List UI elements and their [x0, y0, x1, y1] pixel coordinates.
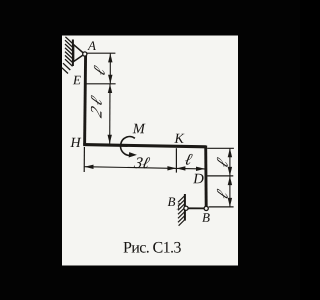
arrow right at K tick (3l dim): [167, 166, 176, 170]
arrow left at K tick (l dim): [176, 166, 185, 170]
dimension line l (corner-D): [229, 148, 231, 176]
arrow up at D tick: [228, 176, 232, 185]
label M: [133, 124, 146, 134]
tick below H for 3l dimension: [83, 147, 85, 172]
paper background: [62, 36, 238, 266]
arrow right at corner bar (l dim): [196, 167, 205, 171]
arrow down at D tick: [228, 167, 232, 176]
tick right at D level: [207, 175, 233, 177]
arrow up at corner tick (right l dim): [228, 148, 232, 157]
dimension line 3l (H-K): [85, 167, 177, 169]
dimension line l (A-E): [109, 53, 111, 83]
arrowhead of moment M: [129, 152, 137, 157]
label B: [202, 213, 210, 222]
arrowheads: [85, 53, 233, 207]
arrow up at E tick (2l dim): [108, 84, 112, 93]
dim label 3l (H-K): [134, 157, 151, 168]
label B1: [168, 198, 180, 210]
tick below K: [175, 148, 177, 172]
moment M arc: [121, 137, 135, 156]
label A: [87, 41, 96, 50]
dimension line l (K-corner): [176, 167, 205, 170]
label H: [70, 138, 81, 147]
caption: [124, 242, 181, 253]
dim label l (corner-D): [217, 157, 228, 167]
dim label l (A-E): [94, 65, 105, 75]
dim label l (K-corner): [185, 154, 193, 165]
arrow down at B tick: [228, 198, 232, 207]
horizontal bar H-K-corner: [83, 145, 206, 147]
link rod B1-B: [186, 207, 206, 209]
label K: [174, 134, 184, 143]
pin circle at A: [83, 52, 87, 56]
arrow down at E tick (l dim): [108, 75, 112, 84]
label E: [73, 76, 81, 85]
wall at support A: [72, 40, 74, 67]
dimension tick at E level: [87, 83, 116, 85]
arrow left at H tick (3l dim): [85, 165, 94, 169]
tick right of corner: [207, 147, 234, 149]
arrow down at H bar (2l dim): [108, 135, 112, 144]
dimension line 2l (E-H): [109, 84, 111, 144]
dimension line l (D-B): [229, 176, 231, 207]
hatching at support B1: [178, 196, 184, 226]
vertical bar A-E-H: [85, 54, 86, 146]
tick right at B level: [209, 206, 234, 208]
pin support triangle at A: [74, 45, 85, 62]
dim label 2l (E-H): [91, 95, 102, 118]
hatching at support A: [62, 37, 73, 74]
pin circle at B: [204, 206, 208, 210]
pin circle at B1: [184, 206, 188, 210]
wall at support B1: [184, 194, 186, 221]
dimension tick at A level: [86, 52, 115, 54]
label D: [193, 174, 204, 184]
arrow up at A tick: [108, 53, 112, 62]
dim label l (D-B): [217, 189, 228, 199]
right vertical bar corner-D-B: [204, 146, 207, 209]
